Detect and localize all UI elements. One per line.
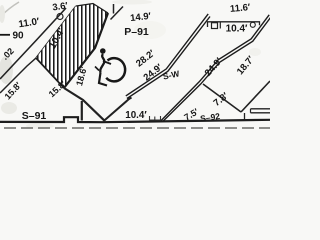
svg-text:10.4′: 10.4′ [226,24,248,35]
wire small staple near bottom 10.4 [150,116,161,120]
smudge noise [0,56,13,84]
wire tick below V right [244,113,246,120]
wire V arm bottom right [241,81,270,112]
wire band continuation to bottom [64,88,105,121]
wire dashed street centerline [4,127,270,129]
wheelchair symbol [95,48,125,85]
node degree circle [250,22,255,27]
wire bottom border with bump [0,117,270,122]
wire D1 double diagonal [126,14,210,99]
wire X backslash right [203,84,241,112]
svg-text:P–91: P–91 [124,26,149,38]
wire double horizontal right [251,109,271,113]
wire L1 upper-left diagonal [0,8,66,79]
wire bracket line top right [208,22,260,29]
wire D2 double diagonal [161,15,271,121]
wire vertical spike [81,101,83,121]
faint top-left road arc [0,2,19,17]
svg-text:14.9′: 14.9′ [130,11,153,24]
node circle near 3.6 label [57,14,63,20]
svg-text:10.4′: 10.4′ [125,110,147,121]
node tick near P-91 [111,4,124,20]
wire V right arm [104,98,132,121]
svg-text:11.6′: 11.6′ [230,2,252,15]
hatched band polygon [36,4,108,89]
svg-text:90: 90 [12,31,24,42]
svg-text:3.6′: 3.6′ [52,0,70,13]
label P-90 partial [0,34,10,36]
svg-text:S–91: S–91 [22,110,47,122]
wire left boundary long [0,6,76,93]
